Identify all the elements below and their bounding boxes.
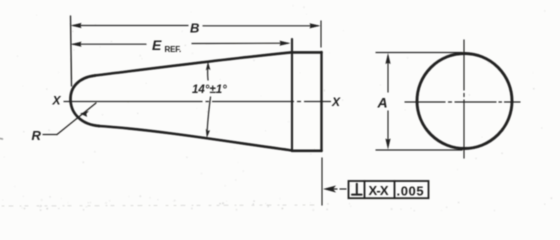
svg-text:REF.: REF.	[165, 45, 182, 54]
vertical centerline of circle	[463, 40, 465, 160]
top extension line for A	[376, 52, 462, 54]
svg-text:X: X	[331, 95, 341, 109]
dimension B line	[71, 23, 321, 29]
svg-text:X-X: X-X	[369, 183, 389, 198]
butt end top line	[292, 51, 322, 54]
scan noise streak bottom	[2, 205, 318, 206]
svg-text:B: B	[190, 21, 199, 36]
cone bottom taper line	[99, 126, 292, 151]
angle arrow upper	[206, 62, 211, 81]
dimension A line	[385, 53, 390, 150]
svg-text:A: A	[377, 95, 388, 111]
svg-text:14°±1°: 14°±1°	[192, 84, 227, 96]
extension line small end (x=70)	[71, 16, 72, 86]
svg-text:R: R	[32, 128, 42, 143]
perpendicularity symbol	[352, 184, 362, 195]
end view circle	[417, 54, 512, 149]
angle arrow lower	[206, 97, 211, 138]
centerline X-X	[64, 101, 331, 103]
svg-text:X: X	[52, 94, 62, 108]
dimension E REF. line	[71, 41, 291, 47]
datum extension line below butt end	[321, 158, 323, 205]
cone top taper line	[95, 52, 292, 75]
datum leader arrow	[323, 186, 346, 193]
leader R	[43, 103, 96, 135]
svg-text:.005: .005	[397, 183, 425, 198]
edge mark left	[0, 138, 3, 141]
svg-text:E: E	[152, 37, 162, 53]
horizontal centerline of circle	[405, 101, 520, 103]
bottom extension line for A	[376, 149, 462, 151]
feature control frame	[349, 181, 429, 198]
cone nose arc R	[70, 76, 99, 127]
butt end right line	[320, 52, 322, 151]
gage line at end of taper (x=292)	[291, 39, 293, 151]
extension line large end for B (x=321)	[320, 21, 322, 47]
butt end bottom line	[292, 150, 322, 153]
